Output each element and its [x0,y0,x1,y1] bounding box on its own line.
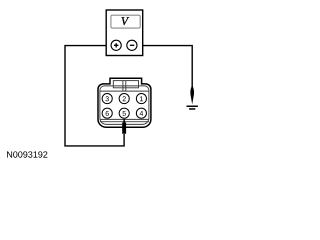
connector face bottom line 1 [100,118,149,120]
pin 1 [136,94,146,104]
voltmeter V label [122,17,130,25]
latch divider left [122,81,124,92]
pin 6 [102,108,112,118]
pin 2 [119,94,129,104]
connector inner outline [100,86,149,125]
voltmeter - terminal [127,40,137,50]
connector C1 outer shell with latch tab [98,78,151,127]
test probe on pin 5 [122,119,126,134]
voltmeter U1 body [106,10,143,56]
voltmeter + terminal [111,40,121,50]
pin 5 [119,108,129,118]
connector latch inner box [113,81,138,88]
ground bar 2 [189,108,195,110]
connector face top line [100,90,149,92]
ground bar 1 [187,106,198,108]
latch divider right [125,81,127,92]
voltmeter display window [111,15,140,28]
figure number label N0093192 [7,151,47,157]
connector face bottom line 2 [100,121,149,123]
wire from voltmeter - terminal right and down to ground [137,46,193,88]
wire from voltmeter + terminal down-left to probe at pin 5 [65,46,124,146]
ground symbol spike [190,86,194,104]
pin 3 [102,94,112,104]
pin 4 [136,108,146,118]
